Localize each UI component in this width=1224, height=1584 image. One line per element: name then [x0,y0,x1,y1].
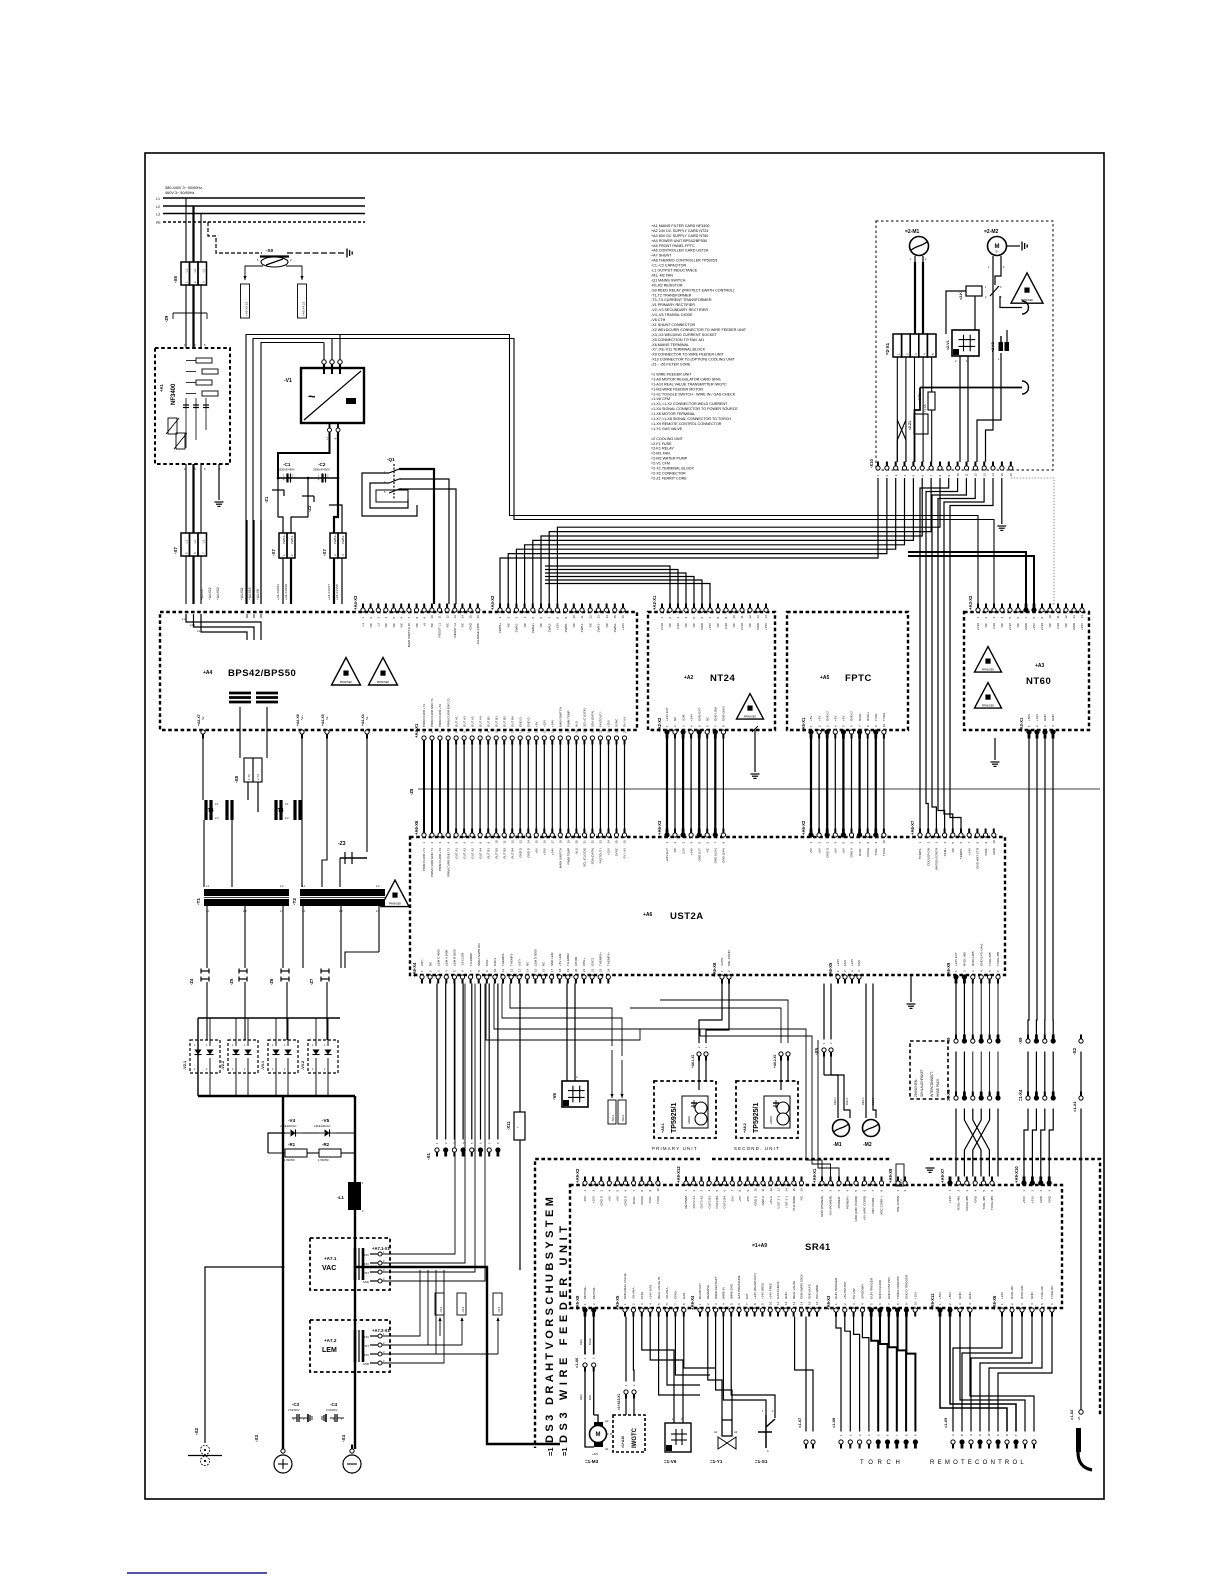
svg-text:+15V: +15V [621,623,625,630]
svg-text:UST-: UST- [420,959,424,966]
svg-text:-T2: -T2 [292,898,297,905]
svg-text:-15V: -15V [363,1262,369,1266]
controller card +A6 UST2A [410,837,1005,975]
svg-text:LEM C 4000: LEM C 4000 [436,949,440,966]
svg-text:+A1 MAINS FILTER CARD NF3400: +A1 MAINS FILTER CARD NF3400 [651,224,709,228]
svg-text:-X10 CONNECTOR TO (OPTION) CO: -X10 CONNECTOR TO (OPTION) COOLING UNIT [651,358,736,362]
svg-text:+15V: +15V [362,1335,369,1339]
svg-text:CFM-: CFM- [640,1292,644,1300]
wire feeder motor =1-M3 [594,1415,598,1422]
svg-text:=2-K1 RELAY: =2-K1 RELAY [651,447,674,451]
svg-text:+A2: +A2 [684,675,694,681]
svg-text:R E M O T E C O N T R O L: R E M O T E C O N T R O L [930,1460,1025,1466]
svg-text:+15V: +15V [556,623,560,630]
svg-text:-C30: -C30 [724,623,728,630]
warning triangle +A3 b [975,683,1002,709]
svg-text:+24V: +24V [948,1196,952,1203]
shunt amplifier +A7.2 LEM [310,1320,390,1372]
svg-text:L1: L1 [156,197,160,201]
svg-text:15: 15 [535,840,539,844]
svg-text:ZWISCHEN-: ZWISCHEN- [914,1079,918,1097]
svg-text:-L1: -L1 [337,1195,344,1200]
svg-text:OSC2: OSC2 [590,957,594,966]
svg-text:2A: 2A [1077,1416,1081,1420]
svg-text:GND: GND [784,1292,788,1300]
svg-text:14: 14 [764,615,768,619]
svg-text:TXDL: TXDL [648,1196,652,1204]
svg-text:-15V: -15V [363,1353,369,1357]
svg-text:OUT2 A1: OUT2 A1 [692,1196,696,1209]
svg-text:-X5 CONNECTION TO FAN -M1: -X5 CONNECTION TO FAN -M1 [651,338,704,342]
svg-text:A: A [1043,1036,1047,1038]
svg-text:GND (U2V): GND (U2V) [714,848,718,863]
svg-text:HLS: HLS [575,848,579,854]
ref label +A6-X4.22 [298,284,307,318]
svg-text:+: + [517,1125,519,1129]
svg-text:-T1,T2 TRANSFORMER: -T1,T2 TRANSFORMER [651,293,692,297]
svg-text:18: 18 [558,968,562,972]
svg-text:-X2 WELDCURR.CONNECTOR TO WIR: -X2 WELDCURR.CONNECTOR TO WIRE FEEDER UN… [651,328,747,332]
svg-text:+24V (BLOW OUT): +24V (BLOW OUT) [753,1273,757,1299]
svg-text:11: 11 [502,840,506,843]
svg-text:PRIM/SEK: PRIM/SEK [744,714,757,718]
svg-text:+A7.2: +A7.2 [324,1338,337,1343]
svg-text:GND: GND [1051,714,1055,722]
svg-text:L3: L3 [156,213,160,217]
wire -X10 pin15 to ground [1001,478,1003,524]
svg-text:+24V GAS: +24V GAS [648,1285,652,1299]
wire =1-X4 crossing to SR41 [955,1109,957,1177]
svg-text:+A4-X13: +A4-X13 [248,587,252,600]
filter capacitors in +A1 [185,398,187,414]
svg-text:+24V EXT: +24V EXT [665,707,669,721]
svg-text:GND (ARC CORR): GND (ARC CORR) [854,1196,858,1222]
svg-text:ZWK2+: ZWK2+ [333,534,337,544]
svg-text:19: 19 [567,729,571,733]
svg-text:GND U2M: GND U2M [714,707,718,721]
svg-text:+A4-X3: +A4-X3 [353,595,358,610]
fan -M2 [863,1120,880,1137]
svg-text:=1-A9 MOTOR REGULATOR CARD SR: =1-A9 MOTOR REGULATOR CARD SR41 [651,377,721,381]
svg-text:WIRE END: WIRE END [729,1283,733,1299]
svg-text:RXDL: RXDL [858,713,862,721]
svg-text:RXDL: RXDL [858,848,862,856]
svg-text:=1: =1 [546,1447,555,1456]
svg-text:PRIM CURR +T2: PRIM CURR +T2 [438,704,442,727]
svg-text:RXDH: RXDH [866,848,870,857]
svg-text:GND (POWER): GND (POWER) [820,1196,824,1217]
svg-text:ZWK1-: ZWK1- [290,535,294,544]
svg-text:FPTC: FPTC [845,673,872,684]
ref label -S0.2 [618,1100,626,1124]
svg-text:GND EXT(+24V): GND EXT(+24V) [979,944,983,966]
svg-text:+A4-X16/17: +A4-X16/17 [327,584,331,600]
svg-text:HOSE PACK: HOSE PACK [936,1078,940,1097]
svg-text:+56V: +56V [1027,714,1031,721]
svg-text:10: 10 [494,729,498,733]
svg-text:CPH-: CPH- [485,959,489,966]
svg-text:PRIM CURR +T2: PRIM CURR +T2 [438,848,442,871]
svg-text:L2: L2 [193,269,197,273]
svg-text:+A4-X4: +A4-X4 [361,714,365,726]
svg-text:OUT2 B2: OUT2 B2 [715,1196,719,1209]
svg-text:WATER CONTR: WATER CONTR [935,847,939,870]
svg-text:REGST L2: REGST L2 [453,623,457,638]
svg-text:-Z9: -Z9 [164,315,169,322]
svg-text:14: 14 [526,968,530,972]
svg-text:N1-: N1- [201,716,205,720]
svg-text:+A9-X10: +A9-X10 [1014,1166,1019,1183]
svg-text:GND D PM POT: GND D PM POT [887,1277,891,1299]
svg-text:=2-V1 CFM: =2-V1 CFM [651,462,670,466]
svg-text:16: 16 [543,729,547,733]
svg-text:GND D: GND D [624,1195,628,1206]
svg-text:RED 1: RED 1 [861,1097,865,1105]
svg-text:-Z1 - -Z6 FILTER CORE: -Z1 - -Z6 FILTER CORE [651,363,691,367]
svg-text:+33V: +33V [1031,1196,1035,1203]
svg-text:17: 17 [551,840,555,844]
svg-text:380-440V 3~ 50/60Hz: 380-440V 3~ 50/60Hz [165,186,202,190]
svg-text:+A3-X1: +A3-X1 [1019,717,1024,732]
svg-text:=1-Y1 GAS VALVE: =1-Y1 GAS VALVE [651,427,683,431]
svg-text:-M2: -M2 [863,1142,872,1148]
svg-text:+A9-X6: +A9-X6 [992,1295,997,1310]
svg-text:+A6-X5: +A6-X5 [828,962,833,977]
svg-text:DS3 WIRE FEEDER UNIT: DS3 WIRE FEEDER UNIT [558,1221,570,1443]
svg-text:+A5 FRONT PANEL FPTC: +A5 FRONT PANEL FPTC [651,244,695,248]
wire +A9-X5 to V6 and IWGTC [642,1317,674,1424]
svg-text:A: A [1043,1093,1047,1095]
svg-text:-T3,-T4 CURRENT TRANSFORMER: -T3,-T4 CURRENT TRANSFORMER [651,298,712,302]
wire to =1-S1 [723,1317,766,1416]
svg-text:-V3.1: -V3.1 [261,1061,265,1070]
warning triangle +A2 [737,694,764,720]
svg-text:16: 16 [476,615,480,619]
svg-text:4,7R2/5W: 4,7R2/5W [318,1159,329,1162]
svg-text:GND WAT CTR: GND WAT CTR [976,847,980,869]
svg-text:+A4-X1: +A4-X1 [414,723,419,738]
svg-text:10: 10 [493,968,497,972]
svg-text:TH-EBR0: TH-EBR0 [469,953,473,966]
wire +A3-X1 to -X9 [1028,739,1029,1035]
svg-text:15: 15 [1000,473,1004,477]
svg-text:10: 10 [768,1301,772,1305]
svg-text:RED: RED [579,1339,583,1345]
filter resistors in +A1 [196,358,212,363]
svg-text:10: 10 [956,473,960,477]
svg-text:16: 16 [815,1301,819,1305]
svg-text:BLK: BLK [588,1395,592,1400]
svg-text:+A6-X6.10: +A6-X6.10 [245,301,249,316]
svg-text:12: 12 [509,968,513,972]
wire mains drops to -X6 [185,198,187,262]
svg-text:+5: +5 [422,623,426,627]
svg-text:-R1: -R1 [288,1142,296,1147]
svg-text:IST: IST [365,1344,370,1348]
svg-text:SCL (CLOCK): SCL (CLOCK) [583,708,587,727]
svg-text:A2: A2 [734,1430,738,1434]
svg-text:GND D: GND D [527,847,531,858]
svg-text:+24V: +24V [689,714,693,721]
svg-text:+A9-X12: +A9-X12 [676,1166,681,1183]
svg-text:REAL VALUE: REAL VALUE [792,1281,796,1299]
svg-text:GND: GND [468,622,472,630]
svg-text:L1: L1 [361,623,365,627]
svg-text:N2-: N2- [325,716,329,720]
CFM =1-V6 [665,1423,691,1452]
svg-text:PH1 WIRE: PH1 WIRE [815,1284,819,1299]
svg-text:+A9-X11: +A9-X11 [930,1293,935,1310]
svg-text:+A4-X8: +A4-X8 [256,589,260,600]
svg-text:XXPS: XXPS [720,958,724,966]
svg-text:22: 22 [590,968,594,972]
svg-text:11: 11 [740,615,744,618]
svg-text:GND D: GND D [527,717,531,728]
svg-text:M2-PWM: M2-PWM [684,1196,688,1209]
svg-text:-X1 SHUNT CONNECTOR: -X1 SHUNT CONNECTOR [651,323,695,327]
wire -S0.2 to +A6-X4.22 [286,266,302,280]
svg-text:12: 12 [510,840,514,844]
svg-text:-Z3: -Z3 [338,841,346,847]
svg-text:11: 11 [776,1302,780,1305]
svg-text:ARC CORR +: ARC CORR + [880,1196,884,1215]
svg-text:-X4: -X4 [341,1435,346,1443]
svg-text:OUT2 B1: OUT2 B1 [707,1196,711,1209]
svg-text:10: 10 [992,840,996,844]
svg-text:24: 24 [607,729,611,733]
svg-text:WIRE IN: WIRE IN [722,1287,726,1299]
svg-text:-15V,LEM: -15V,LEM [461,952,465,966]
svg-text:14: 14 [784,1188,788,1192]
svg-text:ZWK1-: ZWK1- [580,623,584,632]
svg-text:-Q1: -Q1 [387,457,395,462]
wire NF3400 to -X7 [185,464,187,533]
svg-text:15: 15 [792,1188,796,1192]
thermo controller +A8.2 [736,1081,798,1138]
svg-text:L1.1: L1.1 [182,617,188,621]
wire +A1 pin7 to ground [218,464,220,500]
svg-text:SCL (CLOCK): SCL (CLOCK) [583,848,587,867]
earth symbol [346,249,348,258]
svg-text:GND (KAT): GND (KAT) [807,1284,811,1299]
svg-text:=1-X9 REMOTE CONTROL CONNECTO: =1-X9 REMOTE CONTROL CONNECTOR [651,422,722,426]
svg-text:RED 1: RED 1 [833,1097,837,1105]
svg-text:-15V: -15V [746,1196,750,1202]
svg-text:+A4-X7: +A4-X7 [197,714,201,726]
svg-text:TXDH-485: TXDH-485 [990,1196,994,1211]
svg-text:E: E [1026,1036,1030,1038]
border frame [145,153,1104,1499]
svg-text:10: 10 [754,1188,758,1192]
ref label -X16 [493,1293,502,1315]
svg-text:TXDH: TXDH [882,713,886,721]
svg-text:+A4-X14/15: +A4-X14/15 [335,584,339,600]
svg-text:=1-S1 TOGGLE SWITCH - WIRE I: =1-S1 TOGGLE SWITCH - WIRE IN / GAS CHEC… [651,392,736,396]
svg-text:ZWK5+: ZWK5+ [498,623,502,633]
svg-text:L1: L1 [185,540,189,544]
svg-text:18: 18 [559,840,563,844]
svg-text:OUT A3: OUT A3 [462,848,466,859]
svg-text:=1-X7: =1-X7 [798,1418,802,1428]
svg-text:+24V: +24V [1000,1292,1004,1299]
svg-text:OUT B4: OUT B4 [510,848,514,859]
svg-text:BSL-CONN: BSL-CONN [896,1196,900,1212]
svg-text:PRIM CURR GND T2: PRIM CURR GND T2 [446,848,450,877]
svg-text:CFM+: CFM+ [943,848,947,856]
svg-text:+A9-X2: +A9-X2 [575,1168,580,1183]
plug arc upper [1022,301,1029,314]
svg-text:U2V: U2V [681,848,685,854]
svg-text:+A4-X18/19: +A4-X18/19 [284,584,288,600]
svg-text:TP5925/1: TP5925/1 [753,1103,760,1133]
svg-text:16: 16 [543,840,547,844]
svg-text:-X3: -X3 [254,1435,259,1443]
svg-text:12: 12 [510,729,514,733]
svg-text:PRIM/SEK: PRIM/SEK [340,680,353,684]
wire +A7.2 to UST2A [382,1270,420,1336]
svg-text:-S0 REED RELAY (PROTECT EARTH: -S0 REED RELAY (PROTECT EARTH CONTROL) [651,288,734,292]
svg-text:13: 13 [453,615,457,619]
svg-text:RXDH-RC: RXDH-RC [1020,1284,1024,1299]
svg-text:20: 20 [575,840,579,844]
svg-text:10: 10 [913,1301,917,1305]
svg-text:14: 14 [461,615,465,619]
svg-text:=1-X1: =1-X1 [1072,1100,1077,1112]
svg-text:1 T3: 1 T3 [247,774,251,780]
svg-text:NT24: NT24 [710,673,735,684]
svg-text:-S0: -S0 [266,248,274,253]
svg-text:U2M: U2M [681,714,685,721]
svg-text:B: B [1051,1036,1055,1038]
svg-text:+A6-X4: +A6-X4 [412,962,417,977]
svg-text:+15V: +15V [607,848,611,855]
svg-text:+56V: +56V [1022,1196,1026,1203]
wire -X10 to UST2A -X7 bundle [920,478,949,829]
svg-text:+24V (RES): +24V (RES) [761,1283,765,1299]
svg-text:-T1: -T1 [196,898,201,905]
svg-text:-X8: -X8 [234,776,239,784]
ground [910,1003,912,1005]
svg-text:E: E [988,1093,992,1095]
svg-text:-X7: -X7 [271,549,276,557]
svg-text:17: 17 [551,729,555,733]
svg-text:VD-ANA-: VD-ANA- [665,1287,669,1299]
wire V1 AC returns [246,520,248,604]
wire feeder unit =1 DS3 enclosure [535,1159,700,1448]
svg-text:AD592: AD592 [687,1116,691,1124]
svg-text:+C30: +C30 [660,623,664,631]
svg-text:=2-X1: =2-X1 [885,342,890,355]
svg-text:+A8.1-X1: +A8.1-X1 [691,1054,695,1068]
svg-text:-S0.2: -S0.2 [621,1114,625,1122]
svg-text:-V6 CTH: -V6 CTH [651,318,666,322]
svg-text:FAN: FAN [843,960,847,966]
svg-text:+24V: +24V [689,848,693,855]
svg-text:GND (24V): GND (24V) [722,848,726,863]
svg-text:MOTOR+: MOTOR+ [583,1286,587,1299]
svg-text:L3: L3 [202,540,206,544]
svg-text:2.2: 2.2 [215,816,219,820]
wire -S0.1 to +A6-X6.10 [245,266,263,280]
svg-text:+5V: +5V [738,1196,742,1201]
svg-text:OSC1: OSC1 [493,957,497,966]
svg-text:+5V: +5V [842,716,846,721]
svg-text:22: 22 [591,729,595,733]
svg-text:14: 14 [1080,615,1084,619]
svg-text:+A2-X1: +A2-X1 [652,595,657,610]
svg-text:15: 15 [468,615,472,619]
svg-text:OUT B2: OUT B2 [502,848,506,859]
wire -X6 to NF3400 [185,285,187,348]
svg-text:-X6 MAINS TERMINAL: -X6 MAINS TERMINAL [651,343,689,347]
wire fans [823,1057,825,1076]
svg-text:H: H [1035,1036,1039,1038]
svg-text:+56V: +56V [948,1292,952,1299]
60V supply card +A3 NT60 [964,612,1089,730]
svg-text:TXDH-485: TXDH-485 [996,951,1000,966]
svg-text:GAS PRESSURE: GAS PRESSURE [737,1275,741,1299]
svg-text:+15V: +15V [362,1253,369,1257]
svg-text:+A7 SHUNT: +A7 SHUNT [651,254,672,258]
svg-text:L2: L2 [156,205,160,209]
mains filter card +A1 NF3400 [155,348,230,464]
svg-text:INTERCONNECT.: INTERCONNECT. [930,1071,934,1097]
svg-text:14: 14 [527,840,531,844]
svg-text:GND: GND [1030,1292,1034,1300]
svg-text:L2.1: L2.1 [190,623,196,627]
svg-text:10: 10 [494,840,498,844]
svg-text:GND D EURO: GND D EURO [878,1279,882,1299]
svg-text:2 T4: 2 T4 [256,774,260,780]
svg-text:=2-M1: =2-M1 [905,229,920,235]
wire +A6-X8 to +A8.1 [699,984,722,1044]
svg-text:-V2,-V3 SECUNDARY RECTIFIER: -V2,-V3 SECUNDARY RECTIFIER [651,308,708,312]
svg-text:-X1: -X1 [426,1153,431,1161]
svg-text:PH LSP: PH LSP [852,1288,856,1299]
svg-text:+15V: +15V [1080,623,1084,630]
svg-text:+A1: +A1 [159,384,164,392]
svg-text:15: 15 [534,968,538,972]
svg-text:GND: GND [968,1292,972,1300]
svg-text:BPS42/BPS50: BPS42/BPS50 [228,668,296,679]
svg-text:13: 13 [792,1301,796,1305]
wire to +A9-X1 [640,1029,822,1177]
svg-text:=1-X6 MOTOR TERMINAL: =1-X6 MOTOR TERMINAL [651,412,695,416]
svg-text:GAS: GAS [682,1293,686,1299]
svg-text:+5V: +5V [809,716,813,721]
svg-text:AD592: AD592 [769,1116,773,1124]
svg-text:-C30: -C30 [676,623,680,630]
svg-text:14: 14 [800,1301,804,1305]
svg-text:-V6: -V6 [552,1093,557,1101]
svg-text:=1-Y1: =1-Y1 [710,1459,723,1464]
svg-text:LEM: LEM [322,1347,337,1354]
svg-text:OUT2 A2: OUT2 A2 [700,1196,704,1209]
svg-text:RXDH: RXDH [866,712,870,721]
ref label -S0.1 [608,1100,616,1124]
svg-text:+5V: +5V [535,848,539,853]
svg-text:RXDH-485: RXDH-485 [971,951,975,966]
svg-text:GUN TRIGGER: GUN TRIGGER [869,1277,873,1299]
svg-text:TEMP6-: TEMP6- [959,848,963,859]
svg-text:IWGTC: IWGTC [632,1427,638,1448]
svg-text:13: 13 [982,473,986,477]
svg-text:HLS: HLS [575,721,579,727]
ground [929,1167,931,1169]
svg-text:1.1: 1.1 [302,884,306,888]
svg-text:+42V: +42V [592,1452,598,1456]
svg-text:13: 13 [517,968,521,972]
